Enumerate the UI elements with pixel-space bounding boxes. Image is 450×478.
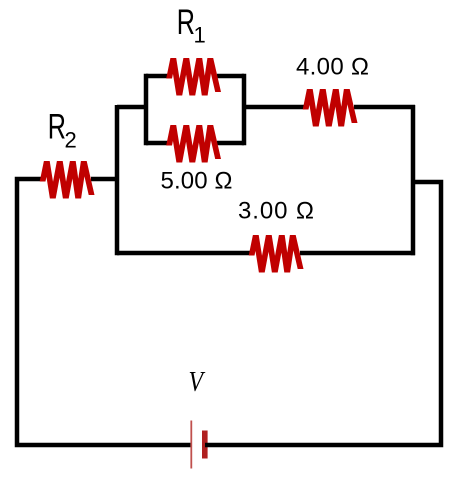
svg-text:R: R	[177, 3, 195, 42]
wire: left loop (R2 left lead, left vertical, bottom-left run)	[17, 179, 191, 445]
resistor R1	[166, 58, 221, 96]
battery V	[191, 421, 207, 469]
svg-text:5.00 Ω: 5.00 Ω	[161, 168, 233, 195]
svg-text:4.00 Ω: 4.00 Ω	[296, 54, 369, 81]
label R1	[177, 3, 206, 47]
wire: 3-ohm left lead	[117, 251, 252, 256]
wire: parallel box right edge	[242, 74, 247, 145]
wire: R2 right lead	[91, 177, 119, 182]
wire: box bottom edge right segment	[217, 141, 244, 146]
battery long plate	[190, 421, 192, 469]
resistor 4.00 ohm	[303, 89, 358, 127]
resistor R2	[40, 161, 95, 199]
wire: parallel box left edge	[144, 74, 149, 145]
resistor 3.00 ohm	[249, 235, 304, 273]
wire: 3-ohm right lead	[300, 251, 415, 256]
wire: box bottom edge left segment	[146, 141, 170, 146]
svg-text:V: V	[189, 366, 206, 397]
resistor 5.00 ohm	[166, 125, 221, 163]
wire: 4-ohm left lead	[244, 105, 306, 110]
wire: middle vertical	[115, 105, 120, 255]
wire: stub from middle vertical to box	[117, 105, 148, 110]
wire: box top edge left segment	[146, 74, 170, 79]
wire: inner right vertical	[411, 105, 416, 255]
battery short plate	[202, 431, 208, 459]
svg-text:3.00 Ω: 3.00 Ω	[238, 198, 314, 225]
label R2	[48, 108, 77, 153]
svg-text:2: 2	[65, 128, 77, 153]
svg-text:R: R	[48, 108, 66, 147]
wire: bottom-right run, outer right vertical, branch step	[205, 182, 441, 445]
wire: box top edge right segment	[217, 74, 244, 79]
wire: 4-ohm right lead	[354, 105, 415, 110]
svg-text:1: 1	[194, 23, 206, 48]
